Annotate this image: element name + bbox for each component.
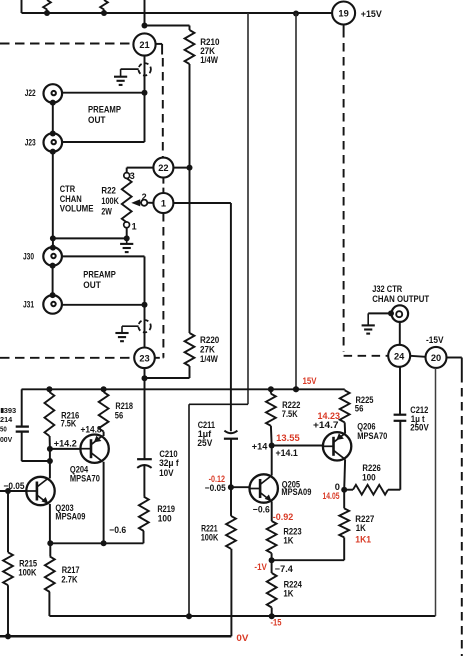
svg-text:15V: 15V (303, 376, 318, 386)
svg-text:2.7K: 2.7K (61, 574, 77, 584)
svg-text:1: 1 (132, 221, 137, 231)
svg-text:3: 3 (130, 171, 135, 181)
svg-text:R226: R226 (362, 463, 380, 473)
svg-text:393: 393 (4, 406, 17, 415)
svg-text:14.05: 14.05 (323, 491, 340, 501)
svg-text:1K: 1K (283, 535, 293, 545)
svg-text:100K: 100K (101, 196, 119, 206)
svg-text:23: 23 (139, 353, 149, 363)
svg-text:−0.6: −0.6 (253, 504, 270, 514)
svg-text:-15: -15 (271, 617, 282, 627)
svg-text:J31: J31 (23, 300, 34, 310)
svg-text:+14.2: +14.2 (54, 438, 77, 448)
svg-text:-1V: -1V (254, 562, 267, 572)
svg-text:2W: 2W (101, 206, 112, 216)
svg-text:CHAN: CHAN (60, 194, 82, 204)
svg-text:22: 22 (158, 163, 168, 173)
svg-text:25V: 25V (197, 438, 213, 448)
svg-text:J23: J23 (25, 137, 36, 147)
svg-text:100: 100 (158, 513, 172, 523)
svg-text:7.5K: 7.5K (282, 409, 298, 419)
svg-text:19: 19 (338, 9, 348, 19)
svg-text:J30: J30 (23, 251, 34, 261)
svg-text:PREAMP: PREAMP (83, 270, 116, 280)
svg-text:OUT: OUT (88, 115, 106, 125)
svg-text:MPSA09: MPSA09 (281, 487, 311, 497)
svg-text:100: 100 (362, 473, 376, 483)
svg-text:+14.7: +14.7 (313, 420, 339, 430)
svg-text:CTR: CTR (60, 184, 76, 194)
svg-text:1: 1 (161, 199, 166, 209)
svg-text:VOLUME: VOLUME (60, 204, 94, 214)
svg-text:250V: 250V (410, 423, 429, 433)
svg-text:1K: 1K (356, 523, 366, 533)
svg-text:24: 24 (394, 351, 405, 361)
svg-text:21: 21 (139, 40, 149, 50)
svg-text:CHAN OUTPUT: CHAN OUTPUT (372, 294, 429, 304)
svg-text:−7.4: −7.4 (275, 564, 294, 574)
svg-text:-0.92: -0.92 (273, 512, 294, 522)
svg-text:214: 214 (0, 415, 13, 424)
svg-text:+14: +14 (252, 442, 268, 452)
svg-text:56: 56 (115, 410, 123, 420)
svg-text:PREAMP: PREAMP (88, 104, 121, 114)
svg-text:2: 2 (142, 192, 147, 202)
svg-text:32μ f: 32μ f (159, 458, 179, 468)
svg-text:100K: 100K (201, 532, 219, 542)
svg-text:−0.6: −0.6 (109, 525, 126, 535)
svg-text:+14.8: +14.8 (81, 424, 102, 434)
svg-text:10V: 10V (159, 468, 174, 478)
svg-text:MPSA09: MPSA09 (55, 512, 85, 522)
svg-text:100K: 100K (18, 567, 36, 577)
svg-text:−0.05: −0.05 (4, 481, 25, 491)
svg-text:+14.1: +14.1 (276, 448, 298, 458)
svg-text:1K1: 1K1 (355, 534, 371, 544)
svg-text:J32 CTR: J32 CTR (372, 284, 402, 294)
svg-text:OUT: OUT (83, 280, 101, 290)
svg-text:1/4W: 1/4W (200, 55, 218, 65)
svg-text:13.55: 13.55 (276, 433, 300, 443)
svg-text:1K: 1K (283, 588, 293, 598)
svg-text:R22: R22 (101, 185, 116, 195)
svg-text:1/4W: 1/4W (200, 354, 218, 364)
svg-text:R217: R217 (62, 565, 80, 575)
svg-text:20: 20 (431, 353, 441, 363)
svg-text:0V: 0V (236, 633, 249, 643)
svg-text:J22: J22 (25, 88, 36, 98)
svg-text:00V: 00V (0, 435, 13, 444)
svg-text:50: 50 (0, 425, 7, 434)
svg-text:R220: R220 (200, 335, 219, 345)
svg-text:+15V: +15V (361, 9, 383, 20)
svg-text:-15V: -15V (426, 335, 444, 345)
svg-text:MPSA70: MPSA70 (70, 474, 100, 484)
svg-text:7.5K: 7.5K (61, 418, 77, 428)
svg-text:MPSA70: MPSA70 (357, 431, 387, 441)
svg-text:56: 56 (355, 404, 364, 414)
svg-text:−0.05: −0.05 (205, 483, 226, 493)
